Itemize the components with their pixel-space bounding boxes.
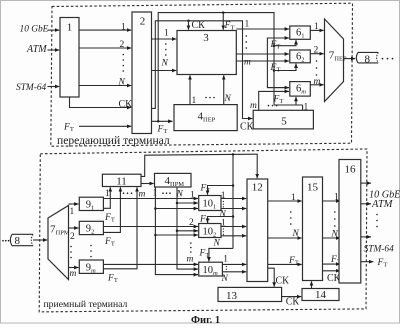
block 10_2	[199, 224, 221, 238]
communication line block 8 receive	[12, 234, 33, 245]
svg-text:1: 1	[334, 192, 339, 202]
wire 2->3 line 1	[152, 38, 177, 40]
wire 8 -> 7prm	[33, 239, 47, 241]
wire input STM-64	[48, 86, 60, 88]
wire lineN branch to 10_1	[177, 202, 198, 204]
ellipsis 3->6 wires	[246, 35, 248, 37]
svg-text:Т: Т	[295, 260, 299, 267]
svg-text:ATM: ATM	[371, 199, 394, 210]
svg-text:ПРМ: ПРМ	[56, 230, 70, 237]
wire 3->6_2 input a	[236, 53, 289, 55]
wire 9_m data -> 10_m	[103, 263, 198, 265]
ellipsis 6->7per	[316, 60, 318, 62]
svg-text:Т: Т	[276, 44, 280, 51]
wire 13 -> 14 CK	[282, 296, 302, 298]
wire 9_1 F_T up to block 11	[103, 187, 110, 208]
junction F_T to block3	[222, 11, 225, 14]
svg-text:1: 1	[105, 189, 110, 199]
block 9_m	[79, 260, 103, 273]
wire 12 -> 15 line 1	[268, 200, 302, 202]
block 14	[302, 289, 339, 301]
wire 1->2 line N	[79, 85, 131, 87]
wire vertical feeding 6_1 b and 6_m a	[267, 38, 289, 88]
wire 7per -> line block 8	[344, 58, 356, 60]
ellipsis 12->15	[290, 211, 292, 213]
svg-text:m: m	[250, 101, 257, 111]
svg-text:1: 1	[245, 20, 250, 30]
svg-text:Т: Т	[276, 67, 280, 74]
wire 4prm lineN down to 10_m	[177, 187, 198, 269]
wire 14 -> 15 up	[311, 281, 313, 288]
svg-text:15: 15	[307, 181, 319, 193]
wire 10_m out N -> 12	[222, 271, 246, 273]
block 9_1	[79, 197, 103, 210]
wire line1 branch to 10_2	[155, 234, 198, 236]
wire 15 -> 16 line N	[323, 237, 341, 239]
svg-text:1: 1	[91, 205, 94, 212]
svg-text:N: N	[331, 230, 339, 240]
svg-text:m: m	[139, 190, 146, 200]
svg-text:3: 3	[203, 32, 209, 44]
svg-text:m: m	[301, 89, 306, 96]
ellipsis between line2 and lineN	[123, 54, 125, 56]
demultiplexer trapezoid 7prm	[48, 206, 69, 280]
wire 4per->3 line 1	[189, 75, 191, 104]
wire 7prm -> 9_m	[69, 267, 79, 269]
wire 16 output 1	[361, 182, 372, 184]
svg-text:СК: СК	[240, 122, 254, 133]
wire 11 -> 4prm	[141, 183, 154, 185]
wire lineN branch to 10_2	[177, 230, 198, 232]
wire 15 -> 16 line 1	[323, 200, 341, 202]
block 4per generator	[174, 105, 237, 131]
block 4prm	[155, 173, 192, 187]
svg-text:Т: Т	[114, 277, 118, 284]
ellipsis 10_1 outputs	[223, 201, 224, 202]
junction line1 to 10_1	[154, 207, 157, 210]
svg-text:14: 14	[315, 289, 327, 301]
junction CK trunk to block3	[187, 20, 190, 23]
ellipsis 16 outputs	[376, 214, 378, 216]
svg-text:2: 2	[314, 46, 319, 56]
ellipsis left of 10_m	[190, 242, 192, 244]
wire 9_1 data -> 10_1	[103, 198, 198, 200]
wire F_T trunk: block2 to 4per and up across	[152, 120, 173, 122]
junction F_T to 10_2	[232, 215, 235, 218]
wire 6_m -> 7per	[310, 84, 323, 86]
svg-text:1: 1	[67, 22, 73, 34]
svg-text:N: N	[213, 239, 221, 249]
svg-text:1: 1	[164, 29, 169, 39]
wire 10_2 out N -> 12	[221, 235, 246, 237]
svg-text:Фиг. 1: Фиг. 1	[191, 315, 220, 325]
svg-text:10 GbE: 10 GbE	[20, 25, 49, 35]
block 10_m	[199, 262, 223, 276]
wire F_T rail vertical	[232, 154, 234, 248]
block 16	[339, 160, 361, 284]
svg-text:2: 2	[189, 218, 194, 228]
svg-text:1: 1	[121, 23, 126, 33]
block 9_2	[79, 221, 103, 234]
wire 9_2 data -> 10_2	[103, 226, 198, 228]
wire 16 output ATM	[361, 203, 372, 205]
ellipsis after block 8	[382, 58, 384, 60]
svg-text:N: N	[292, 229, 300, 239]
wire 4per->3 line N	[223, 75, 225, 104]
block 3	[177, 31, 236, 75]
wire 6_1 -> 7per	[310, 29, 323, 31]
wire 10_1 out 1 -> 12	[221, 198, 246, 200]
wire 15 -> 16 F_T	[323, 263, 341, 265]
wire F_T into 6_2 bottom	[274, 64, 296, 71]
wire 15 -> 16 CK	[323, 270, 341, 272]
wire 3->6_2 input b	[236, 60, 289, 62]
ellipsis 10_2 outputs	[223, 228, 224, 229]
wire F_T drop into block3 top	[222, 13, 224, 30]
svg-text:2: 2	[91, 229, 94, 236]
svg-text:Т: Т	[383, 261, 387, 268]
svg-text:ПЕР: ПЕР	[203, 117, 216, 124]
ellipsis 4per->3	[205, 97, 207, 99]
svg-text:2: 2	[120, 40, 125, 50]
svg-text:Т: Т	[205, 252, 209, 259]
svg-text:STM-64: STM-64	[364, 245, 395, 255]
wire CK from block1 to block2	[70, 97, 132, 108]
ellipsis before block 8 receive	[2, 240, 4, 242]
block 6_2	[290, 50, 311, 63]
svg-text:N: N	[161, 59, 169, 69]
svg-text:11: 11	[116, 175, 127, 187]
block 2	[132, 12, 152, 134]
svg-text:10: 10	[203, 226, 214, 237]
wire 7prm -> 9_2	[69, 227, 79, 229]
svg-text:1: 1	[314, 22, 319, 32]
block 13	[218, 287, 282, 301]
svg-text:Т: Т	[111, 241, 115, 248]
wire F_T into 10_m top	[209, 248, 233, 261]
svg-text:2: 2	[140, 16, 146, 28]
block 11	[102, 174, 141, 186]
svg-text:2: 2	[301, 56, 304, 63]
wire 10_1 out N -> 12	[221, 208, 246, 210]
svg-text:СК: СК	[276, 276, 290, 287]
wire CK trunk: block2 up and across to block5	[152, 21, 253, 119]
junction lineN to 10_2	[176, 230, 179, 233]
svg-text:передающий терминал: передающий терминал	[57, 134, 170, 147]
dashed box: приемный терминал	[39, 149, 367, 312]
block 1	[60, 18, 79, 98]
svg-text:13: 13	[226, 290, 238, 302]
svg-text:N: N	[221, 274, 229, 284]
svg-text:m: m	[314, 77, 321, 87]
junction F_T branch 6_2	[273, 69, 276, 72]
block 6_1	[290, 26, 311, 39]
ellipsis 10_m outputs	[226, 266, 227, 267]
svg-text:m: m	[70, 269, 77, 279]
svg-text:m: m	[244, 58, 251, 68]
wire 1->2 line 1	[79, 29, 131, 31]
wire 10_2 out 1 -> 12	[221, 226, 246, 228]
svg-text:приемный терминал: приемный терминал	[44, 299, 128, 310]
svg-text:STM-64: STM-64	[16, 83, 47, 93]
wire 7prm -> 9_1	[69, 203, 79, 205]
wire 9_2 F_T up to block 11	[103, 187, 120, 232]
svg-text:m: m	[187, 254, 194, 264]
wire 12 -> 15 line N	[268, 237, 302, 239]
wire 12 -> 15 F_T	[268, 263, 302, 265]
multiplexer trapezoid 7per	[325, 19, 344, 102]
ellipsis 7prm outputs	[70, 246, 72, 248]
wire block5 1-line up to F_T rail	[302, 105, 304, 110]
svg-text:m: m	[213, 270, 218, 277]
svg-text:5: 5	[281, 115, 287, 127]
svg-text:8: 8	[15, 235, 21, 247]
svg-text:m: m	[91, 267, 96, 274]
ellipsis between 9_2 and 9_m	[90, 245, 92, 247]
svg-text:1: 1	[301, 33, 304, 40]
svg-text:10: 10	[203, 265, 214, 276]
junction line1 to 10_2	[154, 234, 157, 237]
block 6_m	[290, 82, 311, 97]
block 10_1	[199, 196, 221, 211]
wire F_T into 6_m bottom	[274, 104, 303, 106]
wire input 10 GbE	[48, 29, 60, 31]
svg-text:Т: Т	[163, 128, 167, 135]
block 15	[303, 177, 323, 281]
wire 16 output STM	[361, 236, 372, 238]
wire 9_m F_T up to block 11	[103, 187, 137, 268]
wire line1 branch to 10_1	[155, 208, 198, 210]
junction F_T trunk	[157, 120, 160, 123]
wire 4prm line1 down to 10_m	[155, 187, 198, 275]
svg-text:Т: Т	[279, 98, 283, 105]
svg-text:1: 1	[213, 204, 216, 211]
svg-text:ATM: ATM	[26, 44, 47, 55]
ellipsis between 2->3 wires	[165, 43, 167, 45]
svg-text:12: 12	[252, 181, 263, 193]
svg-text:8: 8	[365, 53, 371, 65]
svg-text:2: 2	[70, 232, 75, 242]
svg-text:N: N	[224, 94, 232, 104]
wire 12 CK down to 13	[268, 268, 275, 286]
wire 10_m out 1 -> 12	[222, 263, 246, 265]
svg-text:1: 1	[223, 255, 228, 265]
svg-text:1: 1	[190, 190, 195, 200]
wire F_T trunk vertical and top run	[158, 13, 274, 122]
svg-text:Т: Т	[206, 187, 210, 194]
svg-text:СК: СК	[286, 297, 300, 308]
wire 2->3 line N	[152, 70, 177, 72]
svg-text:ПРМ: ПРМ	[170, 181, 184, 188]
svg-text:2: 2	[213, 231, 216, 238]
svg-text:Т: Т	[70, 126, 74, 133]
ellipsis above block5	[268, 105, 270, 107]
block 5 distributor	[253, 110, 313, 129]
junction F_T rail	[232, 153, 235, 156]
wire 11 F_T out: up over to 12	[141, 154, 257, 178]
communication line block 8 transmit	[358, 52, 378, 63]
dashed box: передающий терминал	[51, 3, 353, 146]
svg-text:N: N	[118, 78, 126, 88]
svg-text:1: 1	[291, 193, 296, 203]
svg-text:Т: Т	[111, 217, 115, 224]
ellipsis 15->16	[334, 211, 336, 213]
svg-text:1: 1	[221, 219, 226, 229]
svg-text:16: 16	[345, 164, 357, 176]
junction F_T branch 6_1	[273, 44, 276, 47]
svg-text:1: 1	[304, 103, 309, 113]
svg-text:10: 10	[203, 199, 214, 210]
wire CK drop into block3 top	[188, 21, 190, 30]
svg-text:1: 1	[70, 207, 75, 217]
wire input ATM	[48, 49, 60, 51]
wire 1->2 line 2	[79, 47, 131, 49]
wire 16 output F_T	[361, 261, 374, 263]
wire external F_T into block2	[79, 125, 131, 127]
wire F_T into 10_2 top	[208, 217, 234, 223]
wire F_T into 6_1 bottom	[274, 40, 296, 46]
wire 6_2 -> 7per	[310, 53, 323, 55]
junction F_T to 10_1	[232, 184, 235, 187]
junction lineN to 10_1	[176, 202, 179, 205]
svg-text:СК: СК	[119, 99, 133, 110]
wire F_T into 10_1 top	[208, 186, 234, 195]
svg-text:1: 1	[221, 191, 226, 201]
block 12	[247, 179, 268, 282]
wire 3->6_1 input a	[236, 28, 289, 30]
svg-text:СК: СК	[192, 20, 206, 31]
wire block5 m-line up to 6_m input b	[259, 91, 289, 110]
